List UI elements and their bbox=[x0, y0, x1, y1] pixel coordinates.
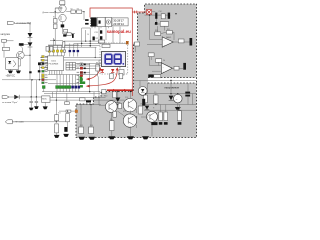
LED row drops bbox=[44, 88, 79, 91]
svg-text:MOC: MOC bbox=[42, 99, 47, 101]
svg-text:samopal.eu: samopal.eu bbox=[107, 29, 131, 34]
ground bbox=[16, 71, 21, 74]
svg-text:1k: 1k bbox=[163, 60, 165, 62]
svg-text:C14: C14 bbox=[159, 11, 162, 13]
resistor R18 bbox=[66, 114, 70, 122]
wires MOC to power stage bbox=[50, 98, 106, 101]
connector lead pins bbox=[85, 19, 89, 24]
junction dots bbox=[29, 11, 178, 118]
svg-text:нагрузка: нагрузка bbox=[1, 34, 11, 36]
pad labels bbox=[77, 64, 80, 83]
left drops into power stage bbox=[81, 104, 91, 127]
arrow: к ЛУ ООВ (left) bbox=[5, 120, 24, 124]
resistor R37 bbox=[113, 111, 116, 117]
port square (white) bbox=[63, 50, 65, 52]
base wires bbox=[99, 92, 148, 129]
wire bbox=[135, 46, 137, 52]
resistor R29 bbox=[110, 121, 114, 131]
capacitor C16b (dark) bbox=[155, 22, 157, 25]
wire bbox=[55, 8, 62, 19]
wire bbox=[18, 59, 20, 66]
connector box bbox=[66, 110, 71, 112]
ground bbox=[89, 137, 96, 140]
tiny ref labels bbox=[53, 8, 157, 126]
wire channel bbox=[134, 80, 197, 82]
resistor R20 bbox=[155, 32, 161, 36]
capacitor under sensor bbox=[61, 24, 64, 27]
wire bbox=[75, 11, 76, 13]
ground bbox=[63, 134, 69, 137]
red jumper wire 2 (curved, to terminal) bbox=[86, 67, 119, 87]
capacitor C2 (box) bbox=[161, 14, 165, 19]
junction bbox=[39, 79, 40, 80]
junction bbox=[90, 40, 91, 41]
capacitor C8 (polar) bbox=[142, 99, 145, 106]
wire bbox=[98, 27, 100, 40]
resistor R2 (dark) bbox=[19, 43, 24, 46]
red frame around display unit bbox=[90, 8, 132, 96]
green pads pair bbox=[80, 76, 83, 82]
wire bbox=[9, 69, 11, 70]
power-stage shaded region (grey dashed block, right side) bbox=[76, 4, 197, 138]
resistor R7 bbox=[102, 44, 110, 47]
wire bus bbox=[74, 46, 97, 48]
ground bbox=[127, 136, 134, 139]
resistor R25 bbox=[143, 95, 147, 103]
MCU left pin stubs bbox=[45, 58, 48, 70]
arrow: от клона ТХД input bbox=[8, 21, 32, 25]
junction bbox=[36, 96, 37, 97]
wire bbox=[56, 121, 67, 123]
red arrow marker on mains wire bbox=[113, 89, 116, 92]
wires MCU to display bbox=[64, 58, 102, 69]
svg-text:23:06'14: 23:06'14 bbox=[113, 22, 124, 26]
wire bbox=[38, 65, 40, 80]
diode VD1 bbox=[28, 33, 33, 38]
series box bbox=[65, 102, 70, 105]
drops to start wires bbox=[53, 92, 67, 102]
bus 2 bbox=[48, 83, 80, 85]
wire bbox=[177, 103, 179, 107]
wire bbox=[151, 122, 153, 136]
wire bbox=[29, 47, 31, 80]
wire bbox=[55, 92, 57, 115]
port squares (yellow) above MCU bbox=[48, 50, 62, 52]
wire bbox=[105, 27, 107, 40]
module bottom pin stubs bbox=[92, 27, 108, 29]
resistor R30 bbox=[138, 106, 142, 114]
wire bbox=[66, 11, 71, 13]
transistor Q3 (sensor) bbox=[59, 14, 66, 21]
seven-segment display HG1 bbox=[102, 52, 126, 67]
vertical collector wire bbox=[89, 63, 91, 92]
resistor R6 bbox=[53, 24, 57, 29]
choke (black) bbox=[86, 100, 91, 102]
crystal ZQ1 bbox=[63, 34, 66, 36]
red link to power block bbox=[132, 11, 146, 13]
LED (green single) bbox=[83, 81, 86, 84]
triac VS1 bbox=[138, 87, 147, 96]
MCU DD1 bbox=[48, 56, 64, 71]
capacitor C10 (polar) bbox=[72, 34, 74, 38]
resistor R8 bbox=[98, 40, 105, 43]
junction bbox=[85, 41, 86, 42]
wires regulator top bbox=[140, 81, 188, 94]
svg-text:R11: R11 bbox=[58, 113, 61, 115]
arrow: от кнопки Пуск bbox=[2, 96, 18, 104]
svg-text:PIC16F628: PIC16F628 bbox=[49, 64, 59, 66]
LED bar row (blue) bbox=[71, 86, 80, 89]
power transistor VT3 bbox=[123, 114, 136, 127]
resistor R3 bbox=[71, 10, 75, 13]
green pad 1 bbox=[80, 78, 83, 80]
optocoupler U2 bbox=[6, 58, 19, 70]
wire bbox=[62, 22, 64, 34]
LED bar row (green) bbox=[42, 86, 70, 89]
junction (red) bbox=[131, 89, 133, 91]
wire bbox=[59, 110, 66, 112]
junction bbox=[175, 13, 176, 14]
green pad 3 bbox=[80, 85, 83, 87]
capacitor C11 (polar) bbox=[94, 30, 102, 34]
svg-text:VT2: VT2 bbox=[123, 111, 126, 113]
svg-text:R1: R1 bbox=[53, 17, 55, 19]
resistor R1 bbox=[2, 39, 7, 42]
wire VT2-VT3 bbox=[130, 111, 132, 115]
capacitor C7 bbox=[185, 92, 190, 97]
black caps pair bbox=[29, 70, 40, 73]
diode VD2 bbox=[28, 42, 33, 47]
wire bbox=[111, 131, 113, 137]
wire power stage top-left bbox=[76, 104, 101, 106]
ground bbox=[43, 106, 48, 109]
wire bbox=[82, 12, 84, 20]
ground bbox=[8, 71, 13, 74]
capacitor C15 bbox=[35, 97, 38, 106]
indicator pad (white) bbox=[80, 63, 83, 66]
mains filter cap (white channel) bbox=[148, 74, 153, 77]
orange pad X2 bbox=[75, 110, 78, 113]
wire bbox=[54, 29, 56, 45]
wire bbox=[6, 40, 13, 42]
wire bbox=[71, 110, 75, 112]
optotriac U4 MOC3052 bbox=[42, 96, 50, 103]
svg-text:VT4: VT4 bbox=[146, 115, 149, 117]
junction bbox=[149, 14, 150, 15]
resistor R34 bbox=[164, 112, 168, 121]
svg-text:~: ~ bbox=[176, 97, 178, 101]
LED VD3 (red) bbox=[101, 69, 104, 73]
ground bbox=[108, 136, 115, 139]
svg-text:R16: R16 bbox=[90, 125, 93, 127]
junction bbox=[54, 40, 55, 41]
red fuse FU1 bbox=[147, 10, 152, 15]
junction bbox=[90, 104, 91, 105]
diode VD6 bbox=[169, 96, 174, 101]
port squares (navy) above MCU bbox=[69, 50, 80, 52]
wires op-amp2 bbox=[150, 53, 184, 71]
wire crystal rail bbox=[48, 30, 86, 47]
junction bbox=[31, 96, 32, 97]
red coupling marks bbox=[135, 11, 137, 14]
wire from arrow bbox=[15, 23, 30, 32]
relay driver box bbox=[135, 42, 140, 46]
resistor R4 bbox=[77, 10, 82, 13]
capacitor C9 bbox=[67, 33, 71, 36]
svg-text:DD1: DD1 bbox=[52, 61, 57, 63]
ground bbox=[34, 106, 39, 109]
junction bbox=[31, 79, 32, 80]
oscillator box bbox=[64, 30, 68, 33]
labels bbox=[155, 11, 170, 32]
svg-text:R5: R5 bbox=[119, 68, 121, 70]
svg-text:Датчик температуры: Датчик температуры bbox=[43, 12, 62, 14]
svg-text:R7: R7 bbox=[98, 42, 100, 44]
diode VD7 bbox=[115, 98, 120, 103]
junction bbox=[156, 14, 157, 15]
LED row feeds from MCU bbox=[57, 75, 79, 86]
junction bbox=[170, 80, 171, 81]
display dashed enclosure bbox=[100, 43, 128, 74]
LED VD4 (red) bbox=[111, 69, 114, 73]
svg-text:VD9: VD9 bbox=[125, 97, 128, 99]
power transistor VT4 bbox=[147, 111, 158, 122]
AC source G1 bbox=[174, 94, 183, 103]
capacitor C13 (polar) bbox=[93, 37, 95, 41]
wires squares up to rail bbox=[49, 43, 77, 50]
red pad bbox=[80, 67, 83, 70]
capacitor C1 (polar) bbox=[155, 13, 157, 19]
electrolytic caps row bbox=[151, 122, 181, 125]
long wire to divider bbox=[12, 121, 56, 123]
wire bbox=[62, 4, 64, 6]
svg-text:R8: R8 bbox=[96, 62, 98, 64]
resistor R36 bbox=[80, 98, 86, 101]
resistor R14 bbox=[46, 46, 49, 51]
wire bbox=[110, 113, 113, 121]
svg-text:R15: R15 bbox=[80, 125, 83, 127]
snubber box bbox=[102, 89, 106, 93]
wires right lower bbox=[144, 97, 196, 113]
wire bbox=[97, 76, 99, 91]
wire bbox=[119, 27, 121, 44]
resistor R9 bbox=[119, 70, 124, 76]
svg-text:C8: C8 bbox=[140, 104, 142, 106]
ground bbox=[175, 107, 181, 110]
capacitor C16 (polar) bbox=[64, 127, 67, 132]
wire bbox=[29, 38, 31, 42]
relay box K1 bbox=[97, 17, 105, 26]
junction bbox=[81, 43, 82, 44]
svg-text:DA1.1: DA1.1 bbox=[166, 36, 171, 39]
resistor R26 bbox=[174, 66, 179, 70]
wire bus bbox=[74, 42, 126, 44]
pin name labels bbox=[41, 57, 44, 68]
op-amp section wires bbox=[145, 12, 190, 45]
red jumper wire (curved, to terminal) bbox=[86, 67, 102, 80]
capacitor C4 (polar) bbox=[190, 38, 193, 46]
wire bbox=[82, 28, 91, 47]
wire bbox=[112, 27, 114, 44]
transistor Q1 bbox=[17, 51, 25, 59]
svg-text:R3: R3 bbox=[77, 8, 79, 10]
thick red mains wire bbox=[107, 89, 132, 91]
resistor R32 bbox=[89, 127, 94, 134]
orange pad X1 bbox=[126, 41, 129, 44]
wire bbox=[3, 42, 5, 47]
resistor R35 bbox=[177, 111, 181, 121]
clock display box bbox=[112, 18, 128, 26]
svg-text:R2: R2 bbox=[71, 8, 73, 10]
display-left verticals bbox=[95, 47, 99, 66]
op-amp DA1.2 bbox=[161, 63, 172, 74]
interstage resistor bbox=[118, 103, 122, 108]
+5V rail wire bbox=[2, 79, 56, 81]
wires squares to MCU bbox=[49, 52, 77, 56]
transistor Q2 (sensor) bbox=[59, 5, 66, 12]
pinout table bbox=[66, 63, 76, 71]
ground bbox=[29, 108, 34, 111]
power transistor VT1 bbox=[105, 101, 117, 113]
wire bbox=[44, 102, 46, 106]
wire bbox=[94, 92, 99, 100]
svg-text:+5В/VCC: +5В/VCC bbox=[6, 76, 16, 78]
wire bbox=[24, 54, 30, 56]
capacitor C6 (polar) bbox=[183, 63, 186, 70]
wire bbox=[30, 80, 32, 97]
ground bbox=[142, 136, 149, 139]
resistor R16 bbox=[55, 115, 59, 121]
op-amp DA1.1 bbox=[162, 37, 173, 47]
diode VD5 bbox=[14, 95, 19, 99]
wire bbox=[35, 80, 37, 97]
dark red pad bbox=[80, 71, 83, 74]
wire bbox=[67, 122, 69, 127]
resistor R17 bbox=[55, 124, 59, 133]
wire bbox=[24, 44, 30, 46]
svg-text:R14: R14 bbox=[110, 119, 113, 121]
switch box Пуск bbox=[3, 47, 10, 50]
resistor R27 bbox=[154, 95, 158, 104]
wire bbox=[18, 69, 20, 70]
bus under LED row 2 bbox=[44, 92, 100, 94]
svg-text:напряжение: напряжение bbox=[165, 86, 180, 89]
small signal text labels bbox=[104, 96, 155, 114]
resistor R21 bbox=[166, 31, 172, 35]
capacitor C14 bbox=[30, 97, 33, 108]
capacitor C5 bbox=[148, 53, 154, 57]
sensor head bbox=[60, 1, 65, 5]
wire bbox=[19, 45, 23, 53]
black component above legend bbox=[38, 62, 41, 65]
junction bbox=[56, 121, 57, 122]
wire start button bbox=[9, 96, 42, 98]
buzzer box bbox=[105, 17, 111, 26]
svg-text:R40: R40 bbox=[104, 96, 107, 98]
wire bbox=[130, 127, 132, 137]
junction bbox=[29, 55, 30, 56]
resistor R12 bbox=[119, 74, 123, 79]
resistor R5 bbox=[53, 19, 57, 23]
regulator wires bbox=[142, 88, 196, 105]
cap bars beside pads bbox=[84, 64, 86, 74]
power transistor VT2 bbox=[123, 99, 136, 112]
wire colour legend column (right of MCU) bbox=[42, 56, 45, 73]
resistor R22 bbox=[178, 39, 184, 43]
resistor R11 bbox=[110, 74, 114, 79]
resistor R13 bbox=[62, 42, 65, 48]
capacitor C12 (polar) bbox=[94, 36, 102, 40]
legend label ticks bbox=[45, 56, 48, 83]
junction bbox=[90, 45, 91, 46]
wire bus bbox=[74, 45, 100, 47]
diode VD8 bbox=[145, 106, 149, 110]
red arrow marker 2 on mains wire bbox=[124, 89, 127, 92]
resistor R31 bbox=[79, 127, 84, 134]
resistor R33 bbox=[159, 112, 163, 121]
resistor R10 bbox=[96, 65, 100, 72]
svg-text:от кнопки "Пуск": от кнопки "Пуск" bbox=[2, 102, 18, 104]
wires opamp feedback bbox=[161, 32, 174, 40]
wire bbox=[117, 102, 119, 104]
resistor R24 bbox=[154, 75, 161, 78]
resistor R23 bbox=[156, 59, 162, 63]
wire bbox=[81, 28, 83, 47]
junction bbox=[95, 57, 96, 58]
ground bbox=[54, 135, 60, 138]
wire bus bbox=[64, 40, 100, 42]
red pad 2 bbox=[80, 74, 83, 77]
svg-text:C4: C4 bbox=[87, 34, 89, 36]
routing wires MCU to legend bbox=[44, 62, 47, 71]
display connector module U3 (black) bbox=[90, 17, 97, 26]
bus under LED row bbox=[42, 91, 100, 93]
left colour legend column bbox=[42, 74, 45, 84]
ground bbox=[78, 137, 85, 140]
MCU bottom drops bbox=[49, 71, 62, 75]
diode box VD bbox=[160, 22, 168, 27]
resistor R15 bbox=[50, 46, 53, 51]
wire bbox=[3, 51, 5, 58]
green pad 2 bbox=[80, 82, 83, 84]
wire bbox=[55, 133, 57, 135]
capacitor C3 (polar) bbox=[168, 13, 170, 19]
bus above LED row bbox=[48, 74, 98, 76]
resistor R28 bbox=[113, 92, 116, 98]
